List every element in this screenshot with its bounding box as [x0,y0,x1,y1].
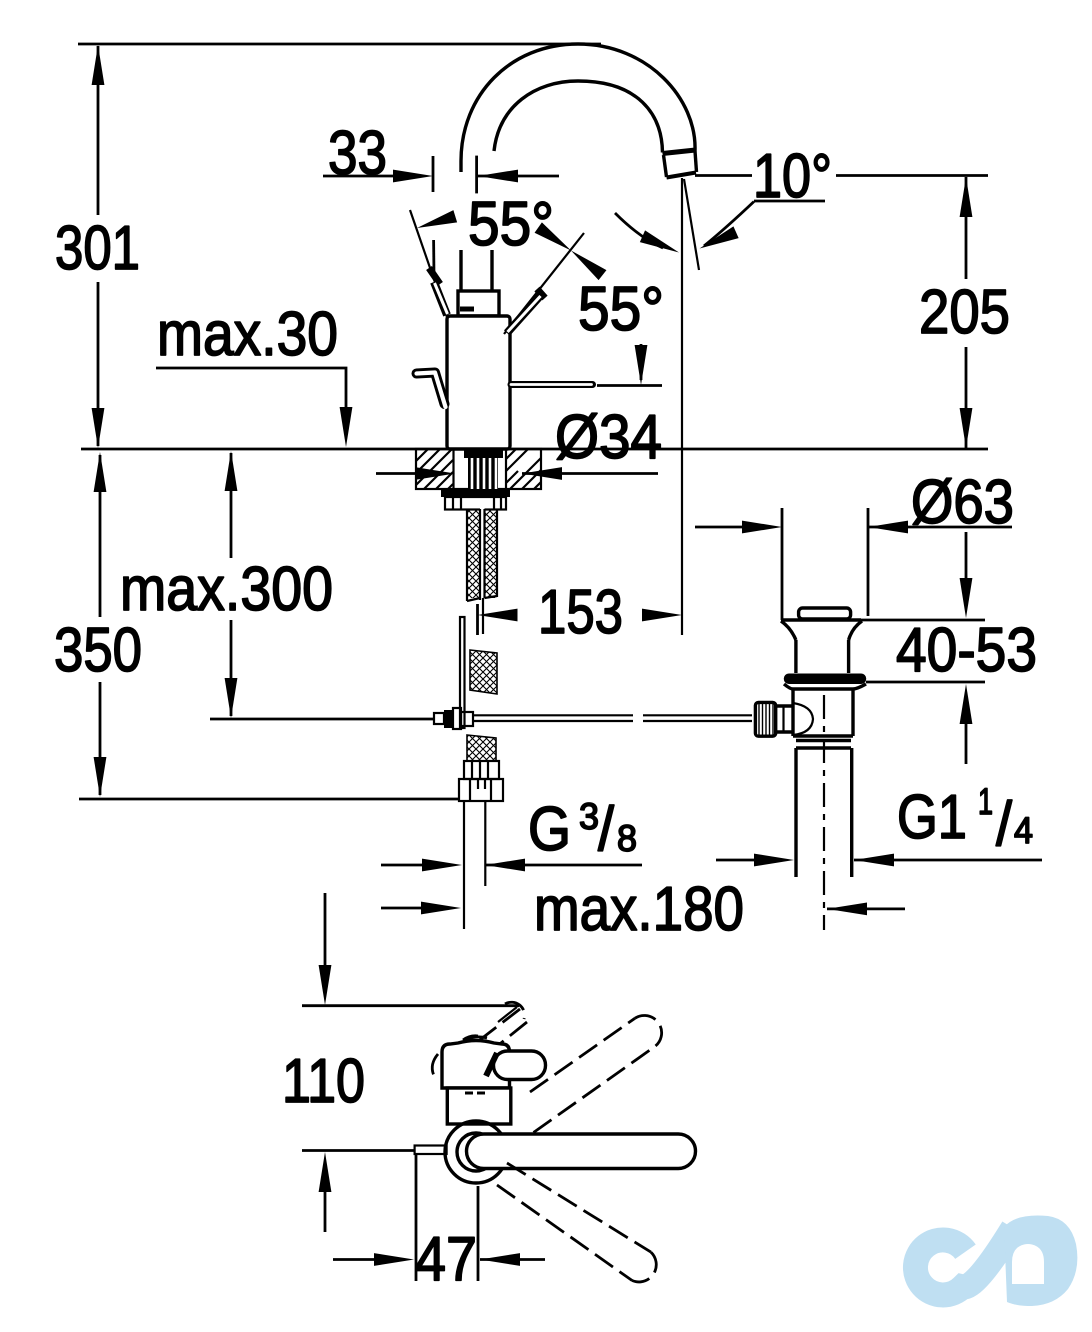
svg-text:3: 3 [579,796,599,837]
dimension 33 [323,119,559,276]
dimension 350 [54,452,459,799]
spout outer arc [461,44,695,172]
drain neck [796,640,849,673]
countertop hatch [416,449,541,489]
clevis fitting [434,708,473,729]
svg-text:G1: G1 [897,783,967,852]
right handle tilted lever [507,289,545,333]
dimension 55 deg lower [567,245,664,385]
svg-text:max.30: max.30 [157,300,338,369]
svg-text:G: G [528,795,571,864]
svg-text:205: 205 [919,278,1010,347]
pop-up rod [460,617,465,728]
aerator [663,150,697,178]
top view: dashed spout [463,1002,527,1055]
top view: cartridge cap [442,1041,510,1089]
dimension 10 deg [615,142,988,258]
drain tailpipe [796,695,852,930]
dimension 110 [282,893,519,1232]
drain pop-up cap [781,608,862,640]
drain knurled knob [755,702,813,736]
left handle axis line [410,210,447,317]
spout pipe [461,250,492,291]
dimension 205 [919,177,1010,448]
svg-text:153: 153 [538,578,623,647]
svg-text:1: 1 [978,781,993,822]
pull rod upper [482,598,484,634]
svg-text:110: 110 [282,1047,365,1116]
dimension max.30 [156,300,352,447]
drain flange [784,684,866,689]
lower hose segment [467,735,496,761]
countertop line [81,448,988,451]
horizontal pop-up rod [473,715,752,721]
dimension 153 [478,578,683,647]
dimension 55 deg upper [415,190,575,259]
water stream 10 deg line [684,179,699,270]
hex nut [459,779,503,801]
dimension Ø34 [376,403,662,480]
svg-text:301: 301 [55,214,140,283]
dimension 47 [333,1155,545,1294]
hose connector [464,761,499,779]
right lever rod [511,385,662,386]
left lever horizontal position [417,373,446,408]
threaded shank in deck [454,450,507,489]
svg-text:4: 4 [1014,810,1033,851]
upper hose segment [470,650,497,694]
dimension 301 [55,45,140,448]
svg-text:40-53: 40-53 [896,616,1037,685]
threaded tube [467,508,497,601]
top view: dashed cap arcs [432,1037,487,1081]
svg-text:55°: 55° [578,275,664,344]
svg-text:Ø63: Ø63 [911,468,1014,537]
dimension max.180 [381,875,905,944]
left handle tilted lever [429,268,448,315]
dimension Ø63 [695,468,1014,620]
top view: lower dashed lever [497,1163,656,1282]
spout inner arc [494,81,663,153]
drain o-ring [784,674,866,685]
collar [458,291,499,316]
dimension max.300 [120,451,434,719]
logo [915,1215,1077,1306]
right handle axis line [504,233,584,334]
svg-text:/: / [996,790,1013,859]
top view: solid lever [467,1134,696,1169]
svg-text:/: / [598,795,615,864]
top view: lever stub [486,1051,546,1080]
mounting nut [445,497,506,510]
svg-text:max.300: max.300 [120,555,333,624]
drain valve body [793,689,853,748]
faucet body [447,316,510,449]
dimension G1 1/4 [716,781,1042,866]
svg-text:max.180: max.180 [534,875,744,944]
top view: body [447,1088,511,1124]
svg-text:33: 33 [328,119,387,188]
svg-text:8: 8 [617,818,637,859]
svg-text:47: 47 [415,1225,477,1294]
top view: escutcheon circle [445,1121,507,1183]
svg-text:350: 350 [54,616,142,685]
top view: inner circle [457,1133,495,1171]
hose tails [464,801,485,929]
dimension G 3/8 [381,795,642,871]
washer under deck [441,490,510,498]
dimension 40-53 [850,532,1037,764]
top view: upper dashed lever [530,1016,662,1133]
svg-text:Ø34: Ø34 [555,403,662,472]
top reference line [78,43,601,46]
top view: left tab [415,1146,447,1155]
water stream vertical reference line [681,178,683,635]
